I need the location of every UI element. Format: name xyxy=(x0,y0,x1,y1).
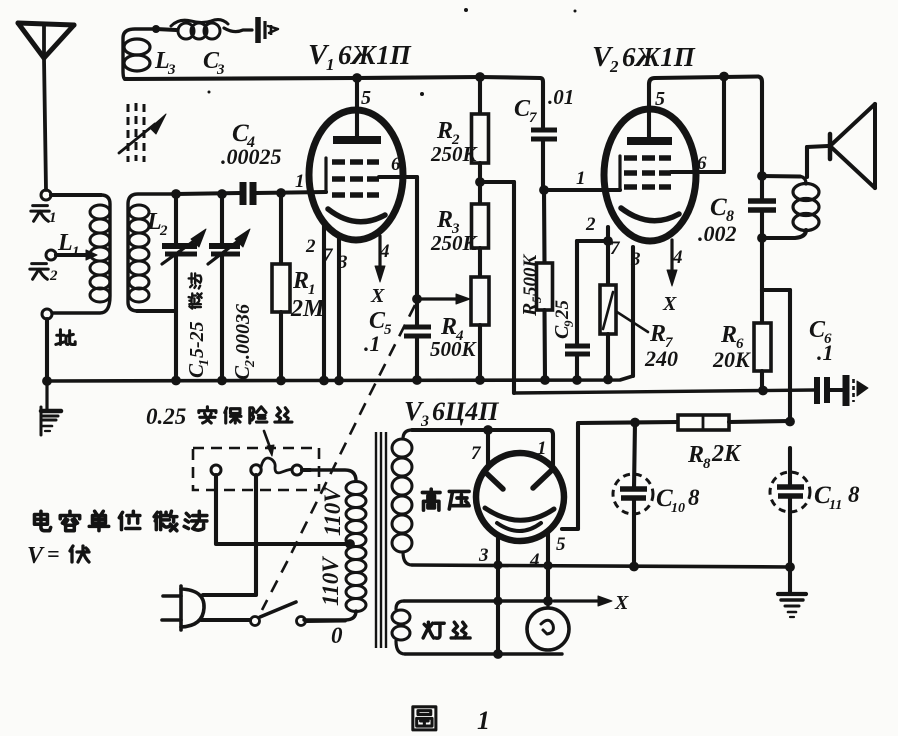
wire arm to R4 slider xyxy=(417,297,458,300)
svg-text:R: R xyxy=(720,322,737,348)
wire fuse to primary xyxy=(302,468,310,472)
label 110V upper xyxy=(320,486,345,536)
svg-text:.002: .002 xyxy=(698,221,737,246)
svg-text:1: 1 xyxy=(537,438,547,459)
wire V1 pin 7 to bus xyxy=(322,223,326,380)
wire top bus corner down to C7 xyxy=(540,78,543,128)
svg-text:3: 3 xyxy=(478,545,489,566)
svg-text:0: 0 xyxy=(331,623,343,648)
svg-text:R: R xyxy=(687,442,704,468)
node bus V1 pin3 xyxy=(334,376,344,386)
node bus R4 xyxy=(475,375,485,385)
terminal T2 (antenna 2) xyxy=(46,250,56,260)
decoupled B+ feed line xyxy=(514,390,814,393)
svg-text:2M: 2M xyxy=(290,296,326,322)
node pin3 filament bottom xyxy=(493,649,503,659)
svg-text:11: 11 xyxy=(829,498,842,513)
inductor L1 xyxy=(52,195,110,313)
earth ground symbol bottom-right xyxy=(778,592,806,596)
node R6 bottom on feed line xyxy=(758,386,768,396)
node R2 top on top bus xyxy=(475,72,485,82)
svg-text:.00025: .00025 xyxy=(221,144,282,169)
svg-text:2: 2 xyxy=(49,268,58,284)
wire C8 bottom to coil bottom xyxy=(762,230,806,238)
svg-text:R: R xyxy=(292,268,309,294)
node bus R5 xyxy=(540,375,550,385)
label C2 (rotated) xyxy=(230,304,258,380)
wire B+ branch right xyxy=(762,288,790,292)
wire V1 pin 5 / anode stem xyxy=(355,78,359,140)
terminal T1 (antenna 1) xyxy=(41,190,51,200)
svg-text:5-25: 5-25 xyxy=(186,321,208,358)
wire tap line xyxy=(216,475,350,544)
wire V2 pin 6 up to bus xyxy=(671,170,724,174)
svg-text:L: L xyxy=(57,230,73,256)
resistor R8 2K xyxy=(678,415,729,430)
svg-text:110V: 110V xyxy=(318,556,343,606)
wire V3 pin 4 down xyxy=(546,530,550,601)
V1 cathode arc xyxy=(328,209,385,222)
wire top bus to R2 xyxy=(478,77,482,114)
label 灯丝 xyxy=(423,622,444,638)
node L3 top xyxy=(152,25,160,33)
node primary tap xyxy=(345,539,355,549)
wire V3 pin 7 stub xyxy=(486,430,490,466)
svg-text:R: R xyxy=(436,207,453,233)
wire L2 top to C4 xyxy=(176,193,240,194)
wire R1 branch top xyxy=(279,193,283,264)
capacitor C6 .1 xyxy=(814,377,820,404)
switch lever xyxy=(260,602,296,617)
node V2 cathode junction xyxy=(603,236,613,246)
svg-text:5: 5 xyxy=(361,87,371,109)
node bus R1 xyxy=(276,376,286,386)
wire V1 pin 3 to bus xyxy=(337,238,341,380)
svg-text:6Ж1П: 6Ж1П xyxy=(338,40,412,70)
pilot lamp xyxy=(527,608,569,650)
svg-text:3: 3 xyxy=(216,62,225,78)
wire R2 to R3 xyxy=(478,163,482,204)
node bus V1 pin7 xyxy=(319,376,329,386)
node bus 地 xyxy=(42,376,52,386)
wire terminal2 to plug xyxy=(203,475,256,595)
node C1 top xyxy=(171,189,181,199)
node pin3 filament top crossing xyxy=(493,596,502,605)
capacitor C7 .01 xyxy=(531,128,557,133)
wire L2 bottom to C1 branch xyxy=(137,309,176,313)
inductor L2 xyxy=(128,194,176,311)
svg-text:6Ц4П: 6Ц4П xyxy=(432,397,499,426)
variable capacitor C1 xyxy=(162,243,197,249)
wire C2 branch xyxy=(220,194,224,243)
terminal ground 地 xyxy=(42,309,52,319)
dashed mechanical gang line xyxy=(262,305,415,610)
label C9 (rotated) xyxy=(551,300,576,340)
wire R5 to bus xyxy=(542,310,547,380)
wire cathode node to R7 xyxy=(606,241,610,285)
arrow X at filament xyxy=(554,599,600,602)
wire switch to primary xyxy=(306,618,345,623)
note 电容单位 微法 xyxy=(34,511,50,530)
fuse element xyxy=(261,458,292,473)
wire R4 to bus xyxy=(478,325,482,380)
svg-text:.01: .01 xyxy=(548,85,574,109)
svg-text:2: 2 xyxy=(159,223,168,239)
V1 anode plate xyxy=(333,136,381,144)
svg-text:X: X xyxy=(370,285,385,307)
svg-text:6: 6 xyxy=(391,154,401,175)
V3 anode stroke right xyxy=(533,469,553,488)
wire R8 to B+ node xyxy=(729,421,790,422)
wire ground terminal down xyxy=(45,319,49,379)
svg-text:.1: .1 xyxy=(364,331,381,356)
inductor L3 xyxy=(123,29,152,79)
wire C8 to bottom junction xyxy=(760,210,764,237)
svg-text:5: 5 xyxy=(384,322,392,338)
svg-text:6: 6 xyxy=(697,153,707,174)
chassis ground at C6 xyxy=(843,375,850,406)
fuse label pointer xyxy=(264,431,271,450)
wire V2 top bus xyxy=(649,77,758,85)
node B+ branch at R6 top xyxy=(760,288,764,292)
svg-text:8: 8 xyxy=(688,485,700,510)
V2 anode plate xyxy=(627,137,672,145)
svg-text:1: 1 xyxy=(49,210,57,226)
node bus C9 xyxy=(572,375,582,385)
fuse terminal 1 xyxy=(211,465,221,475)
V3 anode stroke left xyxy=(484,471,503,489)
svg-text:=: = xyxy=(47,541,60,566)
wire coil top to horn xyxy=(805,147,809,177)
node V1 pin5 on top bus xyxy=(352,73,362,83)
node V2 grid junction xyxy=(539,185,549,195)
resistor R3 250K xyxy=(472,204,489,248)
ground bus wire xyxy=(47,376,633,381)
caption 圖 1 xyxy=(413,707,436,730)
node C11 bottom xyxy=(785,562,795,572)
V3 ground bus xyxy=(412,565,790,567)
svg-text:V: V xyxy=(27,543,45,569)
svg-text:10: 10 xyxy=(671,501,685,516)
specks xyxy=(464,8,468,12)
wire grid node to V2 pin 1 xyxy=(544,188,620,192)
tube V2 envelope xyxy=(604,109,696,241)
capacitor C3 (coil-style) xyxy=(178,23,194,39)
capacitor C9 xyxy=(565,344,590,349)
wire junction to feed line xyxy=(480,180,514,184)
node pin4 lamp junction xyxy=(543,596,553,606)
mains plug xyxy=(179,586,183,630)
wire cathode node to C9 xyxy=(577,239,608,243)
svg-text:500K: 500K xyxy=(430,337,478,361)
fuse terminal 2 xyxy=(251,465,261,475)
wire V2 plate bus corner down xyxy=(758,77,762,200)
switch pivot xyxy=(251,617,260,626)
svg-text:2: 2 xyxy=(305,236,316,257)
node C5/R4 arm junction xyxy=(412,294,422,304)
resistor R7 240 xyxy=(600,285,616,334)
svg-text:3: 3 xyxy=(167,62,176,78)
chassis ground at C3 xyxy=(255,17,261,43)
svg-text:7: 7 xyxy=(471,443,482,464)
HV secondary winding 高压 xyxy=(403,430,412,439)
filament winding 灯丝 xyxy=(396,601,404,609)
resistor R6 20K xyxy=(754,323,771,371)
wire R1 branch bottom xyxy=(279,312,283,380)
svg-text:2K: 2K xyxy=(711,441,742,467)
svg-text:8: 8 xyxy=(703,456,711,472)
wire T2 tap with arrow xyxy=(56,253,86,257)
svg-text:250K: 250K xyxy=(430,231,479,255)
trimmer adjustment symbol (dashed lines with arrow) xyxy=(128,103,144,162)
wire antenna lead xyxy=(44,58,46,190)
node C10 bottom xyxy=(629,562,639,572)
fuse terminal 3 xyxy=(292,465,302,475)
wire R6 to feed line xyxy=(760,371,764,390)
ground symbol bottom-left xyxy=(45,385,48,409)
capacitor C10 (electrolytic) xyxy=(613,474,653,514)
node C2 top xyxy=(217,189,227,199)
svg-text:.00036: .00036 xyxy=(232,304,254,359)
label 天1 xyxy=(31,206,49,222)
node C8 top junction xyxy=(757,171,767,181)
node C8 bottom junction xyxy=(757,233,767,243)
wire V2 pin 2/7 cathode stub xyxy=(606,227,610,241)
capacitor C4 xyxy=(240,182,247,205)
wire C1 branch xyxy=(174,194,178,243)
label C1 (rotated) xyxy=(184,273,212,378)
svg-text:500K: 500K xyxy=(520,254,541,297)
transformer core xyxy=(375,432,377,648)
label 天2 xyxy=(30,264,48,280)
svg-text:5: 5 xyxy=(556,534,566,555)
svg-text:2: 2 xyxy=(609,57,619,76)
node pin4 bus crossing xyxy=(543,561,552,570)
svg-text:X: X xyxy=(614,592,629,614)
svg-text:C: C xyxy=(710,194,727,221)
wire V2 pin 3 down xyxy=(631,247,635,376)
svg-text:1: 1 xyxy=(72,244,80,260)
svg-text:X: X xyxy=(662,293,677,315)
svg-text:.1: .1 xyxy=(817,340,834,365)
resistor R2 250K xyxy=(472,114,489,163)
wire L3 to C3 xyxy=(156,29,176,30)
wire C8 node down to R6 xyxy=(760,238,764,323)
V1 grid rows xyxy=(332,159,345,165)
node bus C2 xyxy=(217,376,227,386)
wire C8 node to speaker coil xyxy=(762,174,800,179)
svg-text:2: 2 xyxy=(585,214,596,235)
V2 grid side bracket xyxy=(618,156,621,190)
wire V3 pin 3 down xyxy=(496,538,500,654)
wire grid node to R5 xyxy=(542,190,547,263)
svg-text:R: R xyxy=(519,303,541,317)
svg-text:1: 1 xyxy=(197,359,212,366)
svg-text:6Ж1П: 6Ж1П xyxy=(622,42,696,72)
svg-text:25: 25 xyxy=(552,300,573,321)
svg-text:250K: 250K xyxy=(430,142,479,166)
svg-text:7: 7 xyxy=(529,110,537,126)
V1 pin 4 heater arrow xyxy=(378,236,381,268)
wire R3 to R4 xyxy=(478,248,482,277)
svg-text:5: 5 xyxy=(529,296,544,303)
node bus C5 xyxy=(412,375,422,385)
variable capacitor C2 xyxy=(209,243,240,249)
wire top bus L3 to C7 xyxy=(125,78,357,79)
node C10 top xyxy=(630,418,640,428)
node V2 pin6 top xyxy=(719,72,729,82)
svg-text:4: 4 xyxy=(529,550,540,571)
svg-text:3: 3 xyxy=(420,413,429,430)
wire V3 pin5 to filter xyxy=(562,422,678,529)
capacitor C5 xyxy=(404,325,431,330)
wire V1 pin 6 to C5 branch xyxy=(379,175,417,179)
wire C4 to V1 pin1 xyxy=(256,192,326,193)
wire R7 to bus xyxy=(606,334,610,379)
svg-text:9: 9 xyxy=(561,320,576,327)
wire HV winding to pin7/pin1 xyxy=(412,430,553,467)
node B+ filter output xyxy=(785,417,795,427)
svg-text:1: 1 xyxy=(576,168,586,189)
label 110V lower xyxy=(318,556,343,606)
label 高压 xyxy=(422,489,440,510)
svg-text:1: 1 xyxy=(477,706,490,735)
node V3 pin 7 xyxy=(483,425,493,435)
svg-text:1: 1 xyxy=(326,55,335,74)
fuse box (dashed) xyxy=(193,448,319,490)
resistor R5 500K xyxy=(537,263,553,310)
speaker horn xyxy=(828,134,833,159)
resistor R4 500K (volume) xyxy=(471,277,489,325)
svg-text:2: 2 xyxy=(243,360,258,368)
capacitor C11 (electrolytic) xyxy=(770,472,810,512)
label R5 (rotated) xyxy=(519,254,544,318)
node bus R7 xyxy=(603,375,613,385)
tube V1 envelope xyxy=(309,110,403,240)
svg-text:5: 5 xyxy=(655,88,665,110)
svg-text:240: 240 xyxy=(644,346,678,371)
wire C3 to ground xyxy=(224,28,252,32)
switch contact xyxy=(297,617,306,626)
resistor R1 2M xyxy=(272,264,290,312)
svg-text:R: R xyxy=(649,321,666,347)
primary winding 110V xyxy=(302,470,356,481)
capacitor C8 .002 xyxy=(748,198,776,204)
antenna xyxy=(18,23,74,25)
node pin3 bus crossing xyxy=(493,560,502,569)
svg-text:20K: 20K xyxy=(712,347,751,372)
tube V3 envelope xyxy=(476,453,564,541)
V2 grid rows xyxy=(624,155,637,161)
wire plug to switch xyxy=(201,618,250,622)
svg-text:0.25: 0.25 xyxy=(146,404,186,429)
svg-text:R: R xyxy=(436,118,453,144)
wire C7 to V2 grid node xyxy=(541,139,545,189)
svg-text:1: 1 xyxy=(295,171,305,192)
speaker output coil xyxy=(800,177,806,185)
svg-text:110V: 110V xyxy=(320,486,345,536)
svg-text:8: 8 xyxy=(848,482,860,507)
label R7 pointer xyxy=(617,312,648,332)
node R1 top xyxy=(276,188,286,198)
V1 grid side bracket xyxy=(324,158,327,192)
node R2/R3 junction xyxy=(475,177,485,187)
wire T1 to L1 xyxy=(51,193,101,197)
node bus C1 xyxy=(171,376,181,386)
V3 inner arc xyxy=(497,523,541,531)
V2 cathode arc xyxy=(621,208,679,221)
V3 cathode arc xyxy=(485,508,554,520)
V2 pin 4 heater arrow xyxy=(670,240,673,272)
wire to earth ground xyxy=(788,567,792,592)
label 地 xyxy=(56,330,75,345)
